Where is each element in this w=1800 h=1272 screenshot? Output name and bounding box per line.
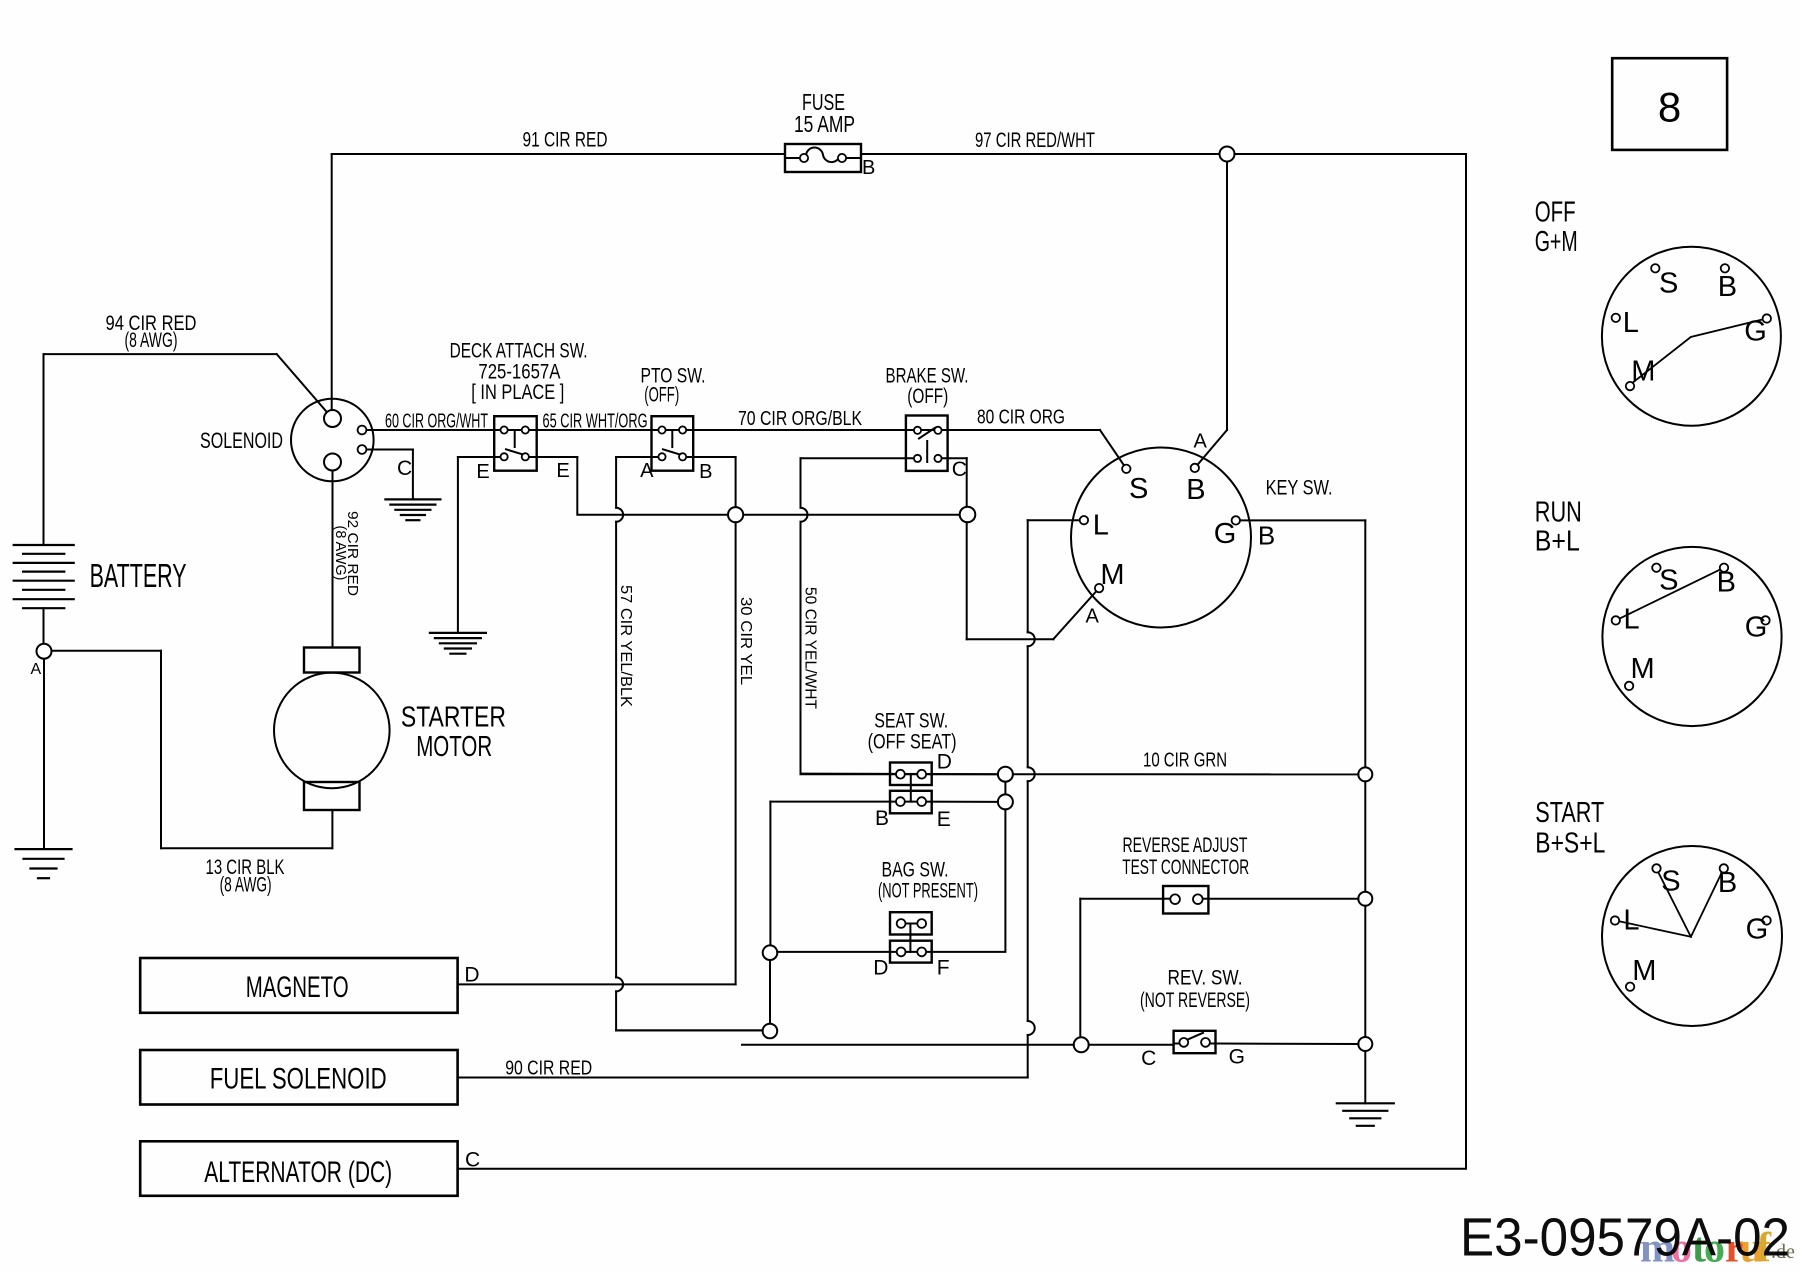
svg-text:50 CIR YEL/WHT: 50 CIR YEL/WHT	[802, 587, 819, 709]
svg-text:G+M: G+M	[1535, 226, 1578, 258]
svg-text:REVERSE ADJUST: REVERSE ADJUST	[1123, 834, 1248, 857]
svg-text:FUEL SOLENOID: FUEL SOLENOID	[210, 1063, 387, 1096]
svg-text:M: M	[1632, 955, 1656, 987]
svg-text:B: B	[699, 461, 712, 483]
svg-text:STARTER: STARTER	[401, 702, 506, 734]
svg-text:B: B	[875, 807, 889, 830]
svg-text:m: m	[1640, 1226, 1675, 1272]
svg-text:C: C	[952, 458, 967, 481]
svg-text:M: M	[1100, 559, 1124, 591]
svg-text:B: B	[1718, 867, 1737, 899]
svg-text:C: C	[397, 457, 412, 480]
svg-text:G: G	[1745, 612, 1768, 644]
svg-text:DECK ATTACH SW.: DECK ATTACH SW.	[450, 340, 588, 363]
svg-text:f: f	[1757, 1226, 1772, 1272]
svg-text:TEST CONNECTOR: TEST CONNECTOR	[1122, 856, 1249, 879]
svg-text:E: E	[556, 460, 569, 482]
svg-text:E: E	[476, 461, 489, 483]
svg-text:.de: .de	[1771, 1241, 1795, 1263]
svg-text:B: B	[1718, 271, 1737, 303]
svg-text:MAGNETO: MAGNETO	[246, 971, 349, 1004]
svg-text:A: A	[1194, 430, 1208, 452]
svg-text:L: L	[1623, 307, 1639, 339]
svg-text:L: L	[1623, 905, 1639, 937]
svg-text:G: G	[1214, 518, 1237, 550]
svg-text:S: S	[1129, 473, 1148, 505]
svg-text:o: o	[1704, 1226, 1725, 1272]
svg-text:57 CIR YEL/BLK: 57 CIR YEL/BLK	[617, 585, 634, 707]
svg-text:MOTOR: MOTOR	[416, 731, 492, 763]
svg-text:(NOT REVERSE): (NOT REVERSE)	[1140, 989, 1250, 1012]
svg-text:A: A	[640, 460, 654, 482]
svg-text:[ IN PLACE ]: [ IN PLACE ]	[471, 381, 564, 404]
svg-text:o: o	[1671, 1226, 1692, 1272]
svg-text:L: L	[1624, 603, 1640, 635]
svg-text:(8 AWG): (8 AWG)	[220, 874, 272, 897]
svg-text:(8 AWG): (8 AWG)	[125, 329, 178, 352]
svg-text:KEY SW.: KEY SW.	[1266, 477, 1333, 500]
svg-text:M: M	[1631, 356, 1655, 388]
svg-text:B+L: B+L	[1535, 525, 1580, 557]
svg-text:G: G	[1746, 914, 1769, 946]
svg-text:BAG SW.: BAG SW.	[882, 859, 949, 882]
svg-text:91 CIR RED: 91 CIR RED	[523, 129, 608, 152]
svg-text:E: E	[937, 808, 951, 831]
svg-text:M: M	[1631, 653, 1655, 685]
svg-text:60 CIR ORG/WHT: 60 CIR ORG/WHT	[385, 411, 488, 433]
svg-text:30 CIR YEL: 30 CIR YEL	[737, 597, 754, 685]
svg-text:S: S	[1659, 268, 1678, 300]
svg-text:(OFF): (OFF)	[644, 384, 679, 407]
svg-text:S: S	[1661, 866, 1680, 898]
svg-text:OFF: OFF	[1535, 197, 1576, 229]
svg-text:97 CIR RED/WHT: 97 CIR RED/WHT	[975, 129, 1095, 152]
svg-text:START: START	[1535, 797, 1604, 829]
svg-text:8: 8	[1658, 84, 1681, 131]
svg-text:C: C	[465, 1149, 480, 1172]
svg-text:15 AMP: 15 AMP	[794, 111, 855, 137]
svg-text:80 CIR ORG: 80 CIR ORG	[977, 407, 1065, 429]
svg-text:SEAT SW.: SEAT SW.	[874, 710, 948, 733]
svg-text:A: A	[1086, 606, 1100, 628]
svg-text:G: G	[1229, 1045, 1245, 1068]
svg-text:90 CIR RED: 90 CIR RED	[505, 1058, 592, 1080]
svg-text:C: C	[1141, 1047, 1156, 1070]
svg-text:70 CIR ORG/BLK: 70 CIR ORG/BLK	[738, 408, 863, 430]
svg-text:BATTERY: BATTERY	[90, 557, 187, 594]
svg-text:SOLENOID: SOLENOID	[200, 428, 283, 453]
svg-text:RUN: RUN	[1535, 497, 1582, 529]
svg-text:D: D	[873, 956, 888, 979]
svg-text:REV. SW.: REV. SW.	[1168, 967, 1243, 990]
svg-text:65 CIR WHT/ORG: 65 CIR WHT/ORG	[543, 411, 648, 433]
svg-text:B: B	[1258, 520, 1275, 550]
svg-text:B: B	[1717, 567, 1736, 599]
svg-text:(OFF): (OFF)	[907, 385, 948, 408]
svg-text:L: L	[1093, 509, 1109, 541]
svg-text:D: D	[937, 750, 952, 773]
svg-text:A: A	[31, 661, 42, 678]
svg-text:D: D	[464, 963, 479, 986]
svg-text:(NOT PRESENT): (NOT PRESENT)	[878, 880, 978, 903]
svg-text:F: F	[937, 956, 950, 979]
svg-text:10 CIR GRN: 10 CIR GRN	[1143, 750, 1227, 772]
svg-text:G: G	[1744, 315, 1767, 347]
svg-text:B: B	[862, 157, 875, 179]
svg-text:(8 AWG): (8 AWG)	[332, 526, 349, 581]
svg-text:B+S+L: B+S+L	[1535, 827, 1605, 859]
svg-text:ALTERNATOR (DC): ALTERNATOR (DC)	[204, 1156, 392, 1189]
svg-text:S: S	[1659, 565, 1678, 597]
svg-text:B: B	[1186, 474, 1205, 506]
